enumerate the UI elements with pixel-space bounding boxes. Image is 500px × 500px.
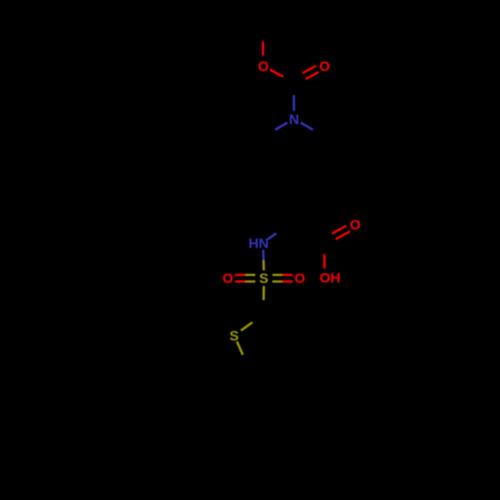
wire [262,260,265,270]
wire [268,233,276,239]
svg-text:O: O [319,58,330,74]
wire [282,280,292,282]
wire [245,280,255,282]
wire [237,342,243,355]
svg-text:N: N [289,111,299,127]
wire [332,226,346,234]
svg-text:O: O [222,270,233,286]
wire [241,322,253,330]
wire [275,123,287,130]
wire [293,95,295,111]
svg-text:O: O [350,217,361,233]
wire [303,66,317,73]
wire [282,274,292,276]
wire [245,274,255,276]
svg-text:HN: HN [248,235,268,251]
svg-text:OH: OH [320,270,341,286]
wire [323,254,325,268]
wire [262,250,265,260]
wire [235,280,245,282]
wire [306,72,319,79]
svg-text:O: O [258,58,269,74]
svg-text:S: S [230,327,239,343]
wire [262,286,264,300]
svg-text:O: O [294,270,305,286]
wire [272,274,282,276]
wire [270,70,283,77]
wire [272,280,282,282]
wire [301,123,313,130]
svg-text:S: S [259,270,268,286]
wire [235,274,245,276]
wire [262,41,264,55]
wire [336,231,350,239]
